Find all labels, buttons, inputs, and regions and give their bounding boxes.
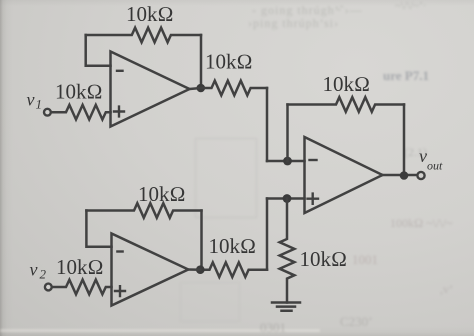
resistor R4 10k series from U2	[200, 262, 267, 277]
op-amp U2 plus sign	[115, 286, 125, 296]
wire U3 output	[383, 174, 418, 177]
wire node A rail	[267, 160, 305, 163]
wire U1 output	[190, 88, 202, 89]
resistor R5 10k to ground (vertical)	[280, 199, 295, 303]
node U3 output junction	[400, 171, 409, 180]
wire node B rail	[267, 197, 305, 200]
terminal v1	[44, 109, 51, 116]
wire mid vertical down to node A	[266, 88, 269, 161]
node U1 output junction	[197, 84, 206, 93]
resistor R8 10k input v2	[52, 280, 112, 295]
svg-text:10kΩ: 10kΩ	[323, 72, 371, 96]
svg-text:10kΩ: 10kΩ	[56, 255, 104, 279]
wire U3 feedback right vertical	[403, 105, 406, 176]
node U2 output junction	[196, 265, 205, 274]
op-amp U3 plus sign	[308, 194, 319, 204]
svg-text:v: v	[30, 260, 38, 280]
wire U2 feedback right vertical	[200, 211, 203, 270]
terminal v_out	[417, 172, 424, 179]
svg-text:v: v	[419, 146, 427, 166]
svg-text:10kΩ: 10kΩ	[209, 234, 257, 258]
wire U1 inverting input	[86, 35, 111, 66]
faint bleed "ure P7."	[383, 68, 429, 84]
svg-text:v: v	[27, 90, 35, 110]
svg-text:1: 1	[36, 97, 43, 112]
wire U3 feedback left vertical	[286, 105, 289, 162]
resistor R7 10k feedback U2	[86, 203, 201, 218]
svg-text:2: 2	[40, 267, 47, 282]
svg-text:10kΩ: 10kΩ	[55, 80, 103, 104]
wire U2 output	[188, 268, 200, 271]
wire U2 inverting input	[86, 211, 111, 247]
resistor R2 10k input v1	[51, 105, 111, 120]
faint bleed "(2.1)"	[404, 145, 427, 160]
wire mid vertical up from R4	[266, 199, 269, 270]
node A junction	[283, 157, 292, 166]
svg-text:10kΩ: 10kΩ	[300, 247, 348, 271]
op-amp U1 plus sign	[114, 107, 124, 117]
op-amp U1 triangle	[111, 52, 190, 127]
op-amp U1 minus sign	[117, 70, 123, 72]
faint bleed resistor right	[390, 216, 453, 231]
op-amp U3 triangle	[305, 137, 383, 213]
wire U1 feedback right vertical	[200, 35, 203, 88]
svg-text:out: out	[427, 159, 443, 173]
svg-text:10kΩ: 10kΩ	[205, 50, 253, 74]
faint bleed-through text top right	[252, 3, 402, 18]
terminal v2	[45, 284, 52, 291]
resistor R6 10k feedback U3	[288, 97, 405, 112]
op-amp U3 minus sign	[310, 159, 317, 161]
node B junction	[283, 194, 292, 203]
resistor R3 10k series from U1	[201, 81, 267, 96]
ground symbol	[272, 303, 300, 311]
faint bleed bottom words	[0, 329, 320, 332]
faint bleed "4001"	[352, 252, 381, 268]
svg-text:10kΩ: 10kΩ	[126, 2, 174, 26]
resistor R1 10k feedback U1	[86, 28, 201, 43]
svg-text:10kΩ: 10kΩ	[138, 182, 186, 206]
op-amp U2 triangle	[112, 234, 189, 306]
op-amp U2 minus sign	[117, 250, 122, 252]
